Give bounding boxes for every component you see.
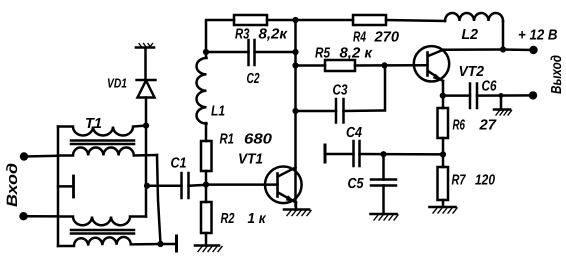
- svg-text:С6: С6: [482, 79, 498, 95]
- node R6 R7: [440, 151, 446, 157]
- capacitor C3: [336, 99, 344, 123]
- inductor L2: [445, 13, 503, 21]
- svg-text:Т1: Т1: [85, 116, 102, 132]
- wire collector vertical VT1: [294, 20, 297, 206]
- ground chassis output: [494, 96, 512, 116]
- svg-text:С1: С1: [171, 156, 187, 172]
- resistor R2: [201, 202, 212, 233]
- label R4: [353, 30, 399, 46]
- svg-text:R7: R7: [452, 173, 467, 189]
- ground C5: [371, 186, 399, 221]
- wire C6 left: [443, 94, 470, 97]
- svg-text:С2: С2: [247, 71, 260, 87]
- svg-text:8,2к: 8,2к: [259, 27, 288, 43]
- svg-text:Выход: Выход: [549, 55, 565, 94]
- capacitor C1: [182, 173, 189, 198]
- node output chassis stub: [499, 93, 504, 98]
- label R5: [315, 46, 373, 62]
- svg-text:VD1: VD1: [107, 76, 127, 91]
- inductor L1: [197, 58, 207, 124]
- wire R4 to L2: [386, 20, 445, 21]
- svg-text:С3: С3: [333, 83, 348, 99]
- resistor R1: [201, 141, 212, 171]
- wire VT1 base row: [206, 183, 278, 186]
- wire C1 right: [189, 185, 207, 186]
- transformer T1 winding 2: [58, 147, 157, 155]
- wire C2 to vertical: [255, 51, 296, 54]
- transistor VT1: [265, 167, 302, 204]
- node C2 left vertical: [203, 49, 209, 55]
- svg-text:R1: R1: [220, 132, 235, 148]
- wire winding2 right down: [157, 155, 161, 244]
- ground chassis VD1 top: [136, 44, 154, 48]
- svg-text:L2: L2: [462, 27, 479, 43]
- wire VD1 to T1 node: [145, 98, 148, 126]
- wire bottom to chassis bar: [161, 243, 177, 246]
- wire top rail left segment: [206, 20, 234, 57]
- svg-text:Вход: Вход: [4, 163, 21, 207]
- resistor R7: [438, 167, 449, 200]
- transistor VT2: [414, 46, 449, 81]
- diode VD1: [137, 80, 156, 98]
- terminal bar C4 left: [324, 145, 327, 162]
- wire R5 row left: [296, 64, 326, 67]
- transformer T1 core bottom: [71, 230, 134, 234]
- transformer T1 right vertical: [145, 126, 148, 217]
- transformer T1 winding 3: [58, 217, 146, 226]
- capacitor C4: [354, 141, 360, 166]
- svg-text:R3: R3: [235, 27, 250, 43]
- svg-text:27: 27: [478, 118, 496, 134]
- wire VT2 collector to node: [444, 48, 504, 51]
- terminal input upper: [20, 152, 28, 160]
- node top rail: [292, 17, 298, 23]
- wire input upper: [24, 155, 58, 158]
- wire VD1 top lead: [144, 48, 147, 81]
- terminal output: [529, 91, 537, 99]
- wire base node to VT2: [385, 64, 428, 67]
- svg-text:L1: L1: [211, 104, 225, 120]
- transformer T1 screen tap: [58, 176, 74, 197]
- terminal +12V: [529, 46, 537, 54]
- node emitter C6: [440, 93, 446, 99]
- resistor R3: [234, 15, 267, 25]
- svg-text:R6: R6: [453, 118, 466, 134]
- transformer T1 winding 1: [58, 126, 146, 136]
- label R7: [452, 173, 496, 189]
- svg-text:R5: R5: [315, 46, 331, 62]
- label R3: [235, 27, 288, 43]
- wire C6 right to terminal: [477, 94, 533, 97]
- wire R1 to node: [205, 171, 208, 202]
- svg-text:120: 120: [475, 173, 495, 189]
- label R2: [221, 211, 267, 227]
- svg-text:VT1: VT1: [238, 152, 263, 168]
- svg-text:270: 270: [373, 30, 399, 46]
- wire VT2 emitter down: [442, 81, 445, 108]
- wire R6 to node: [442, 138, 445, 167]
- svg-text:680: 680: [244, 132, 272, 148]
- node C1 left: [144, 183, 150, 189]
- ground R7: [430, 200, 458, 213]
- resistor R4: [353, 15, 386, 25]
- svg-text:+ 12 В: + 12 В: [518, 28, 558, 44]
- transformer T1 left vertical: [57, 127, 60, 247]
- wire C3 row: [296, 110, 337, 113]
- wire C1 left: [147, 185, 182, 188]
- svg-text:R4: R4: [353, 30, 366, 46]
- transformer T1 winding 4: [58, 237, 161, 246]
- wire R3 to node: [267, 19, 296, 22]
- node base/C1: [203, 182, 209, 188]
- terminal input lower: [19, 212, 27, 220]
- resistor R5: [325, 60, 355, 71]
- ground R2: [195, 233, 222, 252]
- node VD1 T1: [143, 123, 149, 129]
- wire C4 left: [325, 153, 354, 156]
- wire C3 right up to base node: [344, 65, 386, 111]
- label R6: [453, 118, 497, 134]
- ground VT1 emitter: [284, 203, 311, 216]
- node R5 left: [292, 62, 298, 68]
- wire C4 right: [360, 153, 444, 156]
- svg-text:R2: R2: [221, 211, 235, 227]
- node VT2 base: [381, 62, 387, 68]
- node C3 left: [292, 108, 298, 114]
- svg-text:С5: С5: [348, 176, 365, 192]
- capacitor C6: [470, 84, 477, 109]
- wire C2 row left: [206, 51, 249, 54]
- svg-text:VT2: VT2: [459, 64, 485, 80]
- wire L2 down to +12V node: [502, 21, 505, 50]
- node bottom wire: [157, 241, 163, 247]
- node C5 top: [380, 151, 386, 157]
- wire R5 to base node: [355, 64, 385, 67]
- svg-text:1 к: 1 к: [248, 211, 267, 227]
- wire node to R4: [296, 19, 354, 22]
- chassis bar bottom: [175, 236, 178, 251]
- wire L1 to R1: [205, 123, 208, 141]
- node L2/collector: [500, 46, 506, 52]
- capacitor C2: [249, 40, 255, 65]
- capacitor C5: [371, 154, 396, 185]
- resistor R6: [438, 108, 449, 138]
- wire input lower: [24, 215, 59, 218]
- wire node to +12V terminal: [503, 48, 534, 51]
- svg-text:8,2 к: 8,2 к: [340, 46, 373, 62]
- node C2 right: [292, 49, 298, 55]
- svg-text:С4: С4: [346, 125, 362, 141]
- transformer T1 core top: [71, 141, 134, 145]
- label R1: [220, 132, 273, 148]
